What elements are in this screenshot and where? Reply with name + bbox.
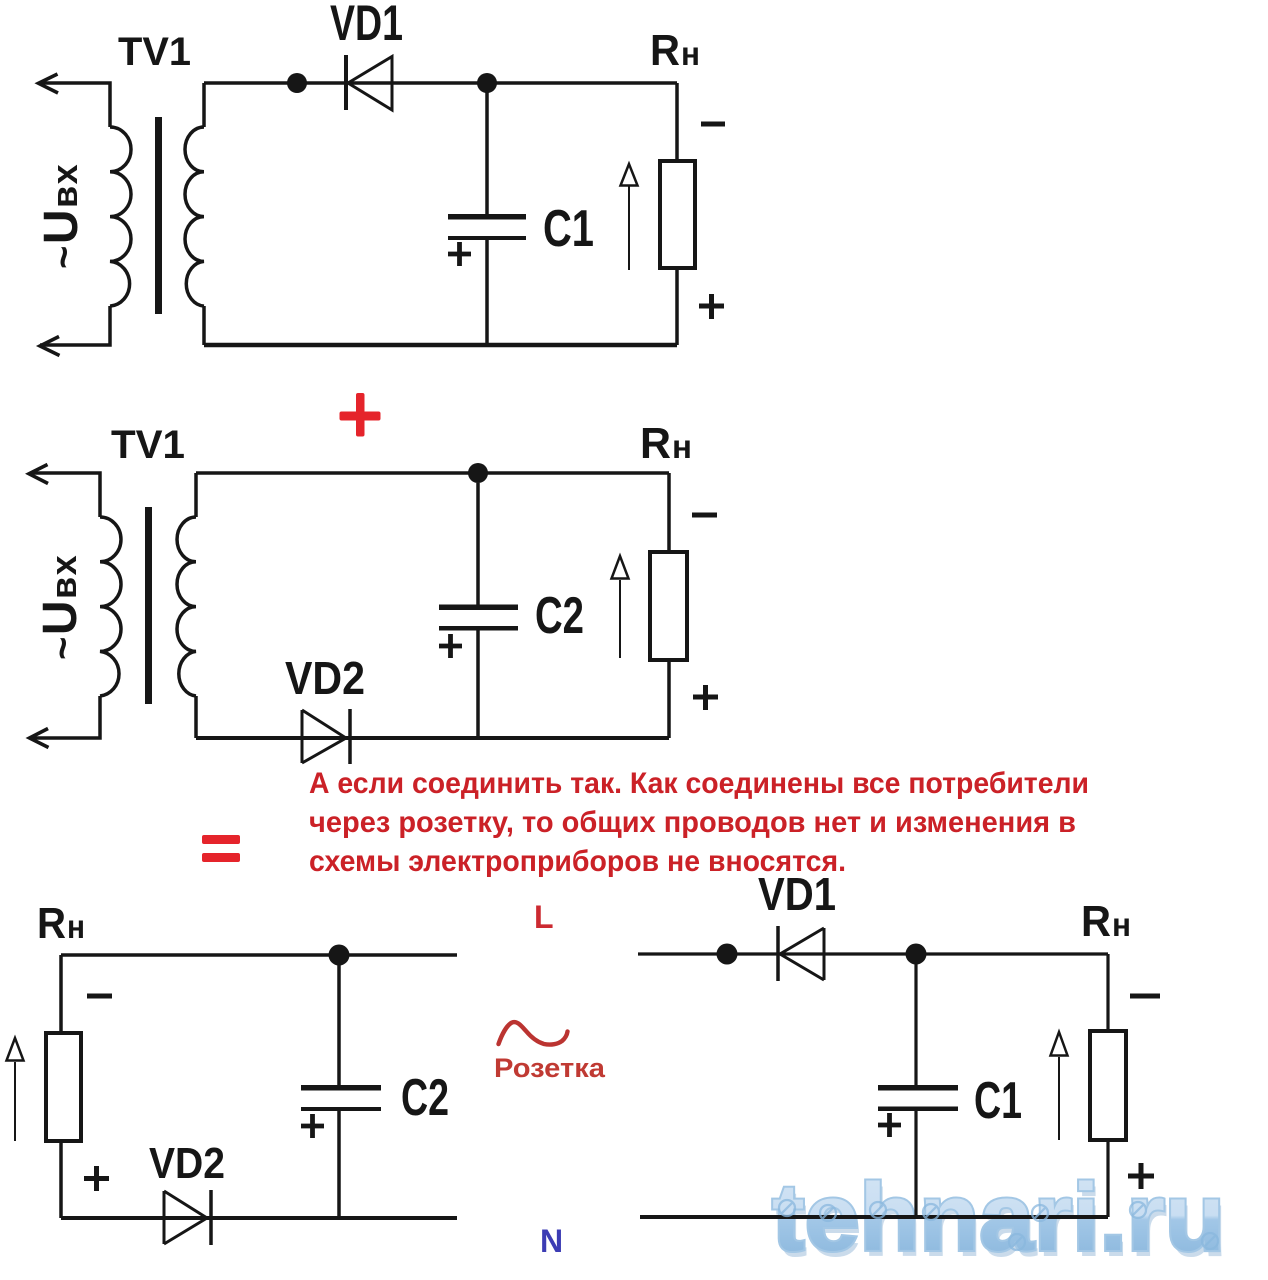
svg-text:L: L [534,899,554,935]
svg-text:R: R [1081,897,1111,946]
svg-text:~Uвх: ~Uвх [35,163,88,269]
svg-text:VD1: VD1 [330,0,403,51]
svg-text:через розетку, то общих провод: через розетку, то общих проводов нет и и… [309,806,1076,839]
svg-text:C1: C1 [543,200,594,258]
svg-text:VD1: VD1 [758,868,836,920]
svg-text:А если соединить так. Как соед: А если соединить так. Как соединены все … [309,767,1089,800]
svg-text:R: R [650,26,680,75]
svg-text:Розетка: Розетка [494,1053,606,1083]
svg-text:N: N [540,1223,563,1259]
svg-text:C2: C2 [401,1069,449,1127]
svg-text:C2: C2 [535,587,584,645]
svg-text:R: R [37,899,66,948]
svg-text:R: R [640,419,671,468]
svg-text:VD2: VD2 [149,1139,225,1188]
svg-text:TV1: TV1 [118,30,191,74]
svg-text:~Uвх: ~Uвх [34,554,87,660]
svg-text:VD2: VD2 [285,652,365,704]
svg-text:н: н [681,35,700,72]
svg-text:C1: C1 [974,1072,1022,1130]
svg-text:н: н [67,908,85,945]
svg-text:н: н [1112,906,1131,943]
svg-text:TV1: TV1 [111,423,185,467]
svg-text:н: н [672,428,692,465]
